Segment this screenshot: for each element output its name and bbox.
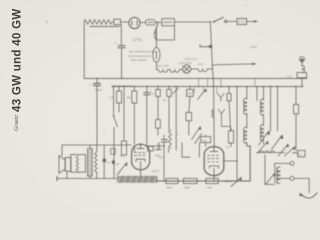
column x169 small box	[168, 86, 170, 89]
cap near x164	[161, 139, 167, 141]
rail B (heater/chassis bus)	[112, 85, 303, 87]
TUBE 2 CL4	[204, 147, 224, 176]
right return vertical	[249, 146, 251, 181]
primary shunt resistor zigzag	[95, 152, 97, 172]
svg-text:43 GW und 40 GW: 43 GW und 40 GW	[12, 8, 24, 112]
earth hook symbol	[301, 193, 317, 198]
tuning gang cap 1	[259, 131, 269, 145]
feedback pot arrow	[231, 178, 241, 187]
bottom return rail	[157, 180, 250, 182]
node junction	[157, 22, 159, 24]
grid resistor column x158	[157, 86, 159, 89]
svg-text:≈220: ≈220	[250, 45, 257, 49]
svg-text:CY1: CY1	[133, 37, 142, 42]
trimmer mark x176	[173, 88, 179, 94]
wire	[140, 22, 145, 24]
rectifier tube CY1	[129, 17, 140, 28]
svg-text:0,1A CA2: 0,1A CA2	[179, 61, 192, 65]
top coupling line between rails x198-255 comb	[199, 79, 255, 87]
columns x270 x277 wires	[270, 87, 272, 131]
mains switch	[214, 17, 224, 22]
antenna coil with core	[275, 167, 277, 183]
series resistor box	[114, 19, 121, 24]
left rail vertical	[83, 21, 85, 79]
svg-text:CF7: CF7	[152, 169, 160, 174]
long vertical x237	[236, 87, 238, 181]
wire	[121, 21, 129, 23]
mains lead arrow top	[247, 20, 255, 22]
tuning gang cap 2	[271, 135, 281, 149]
wire to switch	[174, 21, 210, 23]
rail A (HT bus)	[84, 77, 307, 79]
heater CBC1	[170, 70, 182, 73]
tone cap column x104	[103, 145, 105, 179]
junction x164	[163, 145, 165, 147]
svg-text:μF: μF	[116, 162, 120, 166]
dial lamp	[183, 65, 191, 73]
title: Graetz 43 GW und 40 GW (rotated)	[12, 8, 24, 131]
hatched label strip under tube1	[117, 176, 157, 182]
svg-text:100: 100	[187, 92, 192, 96]
top speaker wire	[62, 144, 131, 146]
TUBE 1 CF7	[132, 144, 150, 170]
junction dots rail A	[96, 78, 303, 80]
antenna circuit top line	[257, 152, 285, 154]
svg-text:+: +	[103, 129, 105, 133]
junction dots bottom rail	[163, 180, 238, 182]
earth jack lower	[290, 176, 294, 180]
SPEAKER cone	[59, 156, 65, 174]
electrolytic cap 50uF at left	[96, 78, 98, 83]
barretter tap wire	[200, 45, 211, 47]
heater feed vertical	[210, 22, 214, 146]
AVC resistor x296	[295, 87, 297, 105]
voltage selector switch	[154, 23, 158, 40]
marks on x113 lower	[112, 160, 115, 164]
heater CF7	[158, 70, 170, 73]
output transformer winding	[88, 149, 93, 177]
wire to earth	[294, 178, 309, 192]
switch fork	[218, 109, 225, 116]
svg-text:+: +	[115, 42, 117, 46]
switch on left branch	[114, 86, 118, 178]
screen feed box above tube2	[201, 137, 211, 143]
anode resistor box	[133, 86, 135, 91]
coil adjust arrow	[266, 173, 275, 184]
svg-text:δμ: δμ	[226, 145, 230, 149]
trimmer arrows	[192, 128, 200, 140]
svg-text:CF7 CF7: CF7 CF7	[157, 64, 169, 68]
heater chain wire	[156, 69, 158, 71]
faint fleck	[45, 20, 48, 23]
svg-text:50µF: 50µF	[95, 88, 102, 92]
volume pot zigzag	[169, 130, 172, 148]
mains lead arrow lower	[212, 64, 252, 65]
if-can verticals	[182, 143, 199, 158]
heater CL4	[191, 65, 213, 72]
osc coil column x247	[246, 87, 248, 99]
svg-text:1kΩ: 1kΩ	[207, 186, 213, 190]
svg-text:1MΩ: 1MΩ	[184, 186, 191, 190]
antenna arrow	[298, 59, 305, 64]
diag arrow near x200	[197, 90, 205, 100]
junction dots rail B	[113, 86, 303, 88]
voltage dropping resistor box	[162, 19, 175, 26]
pickup socket fork	[217, 93, 224, 101]
mains plug box	[237, 18, 247, 24]
electrolytic to tube1	[146, 86, 148, 92]
bypass loop wire	[157, 26, 175, 40]
urdox regulator tube	[153, 47, 160, 62]
antenna vertical to rail B	[301, 78, 303, 86]
svg-text:CL4: CL4	[198, 62, 204, 66]
grid cap column x229	[228, 87, 230, 94]
junction	[209, 21, 211, 23]
osc trimmer cross	[257, 141, 267, 153]
svg-text:50: 50	[298, 152, 302, 156]
svg-text:+CL4 CY1: +CL4 CY1	[184, 57, 198, 61]
ant coil column x263.5	[263, 87, 265, 100]
padder arrow	[285, 147, 294, 156]
column x176 wire	[175, 86, 177, 150]
wave switch arrow	[278, 144, 288, 156]
fuse barrel	[146, 20, 156, 25]
svg-text:4µ: 4µ	[151, 92, 155, 96]
antenna series cap box	[297, 73, 307, 78]
svg-text:7kΩ: 7kΩ	[201, 138, 207, 142]
second left vertical with cap	[120, 25, 122, 79]
svg-text:+: +	[90, 83, 92, 87]
fuse diag on urdox lead	[154, 31, 156, 40]
svg-text:μF: μF	[107, 160, 111, 164]
coil squiggle on detector lead	[212, 110, 213, 118]
tube1 grid cap box left	[123, 86, 125, 140]
resistor tap bar	[90, 25, 120, 27]
antenna coil squiggle	[302, 66, 304, 73]
field coil box	[71, 155, 86, 173]
mains dropping resistor	[84, 20, 113, 25]
resistor right of tube2	[228, 131, 233, 143]
cathode resistor boxes on bottom rail	[166, 178, 178, 183]
small coupling cap on vertical	[118, 45, 125, 47]
left branch of ant coil	[265, 155, 275, 184]
small coil right top	[293, 152, 298, 153]
bottom speaker wire	[57, 178, 118, 180]
tube1 right small parts	[148, 146, 154, 151]
svg-text:Wid. ersetzt: Wid. ersetzt	[131, 58, 146, 62]
speaker leads	[62, 145, 67, 178]
volume pot box + arrow	[117, 163, 126, 175]
svg-text:Graetz: Graetz	[14, 115, 20, 131]
screen resistor box	[118, 86, 120, 91]
svg-text:500: 500	[120, 154, 125, 158]
tube2 right lead	[224, 160, 237, 162]
coupling box x190	[189, 87, 191, 90]
column x257	[256, 87, 258, 101]
antenna jack upper	[290, 161, 294, 165]
svg-text:5kΩ: 5kΩ	[167, 186, 173, 190]
svg-text:2M: 2M	[127, 96, 132, 100]
